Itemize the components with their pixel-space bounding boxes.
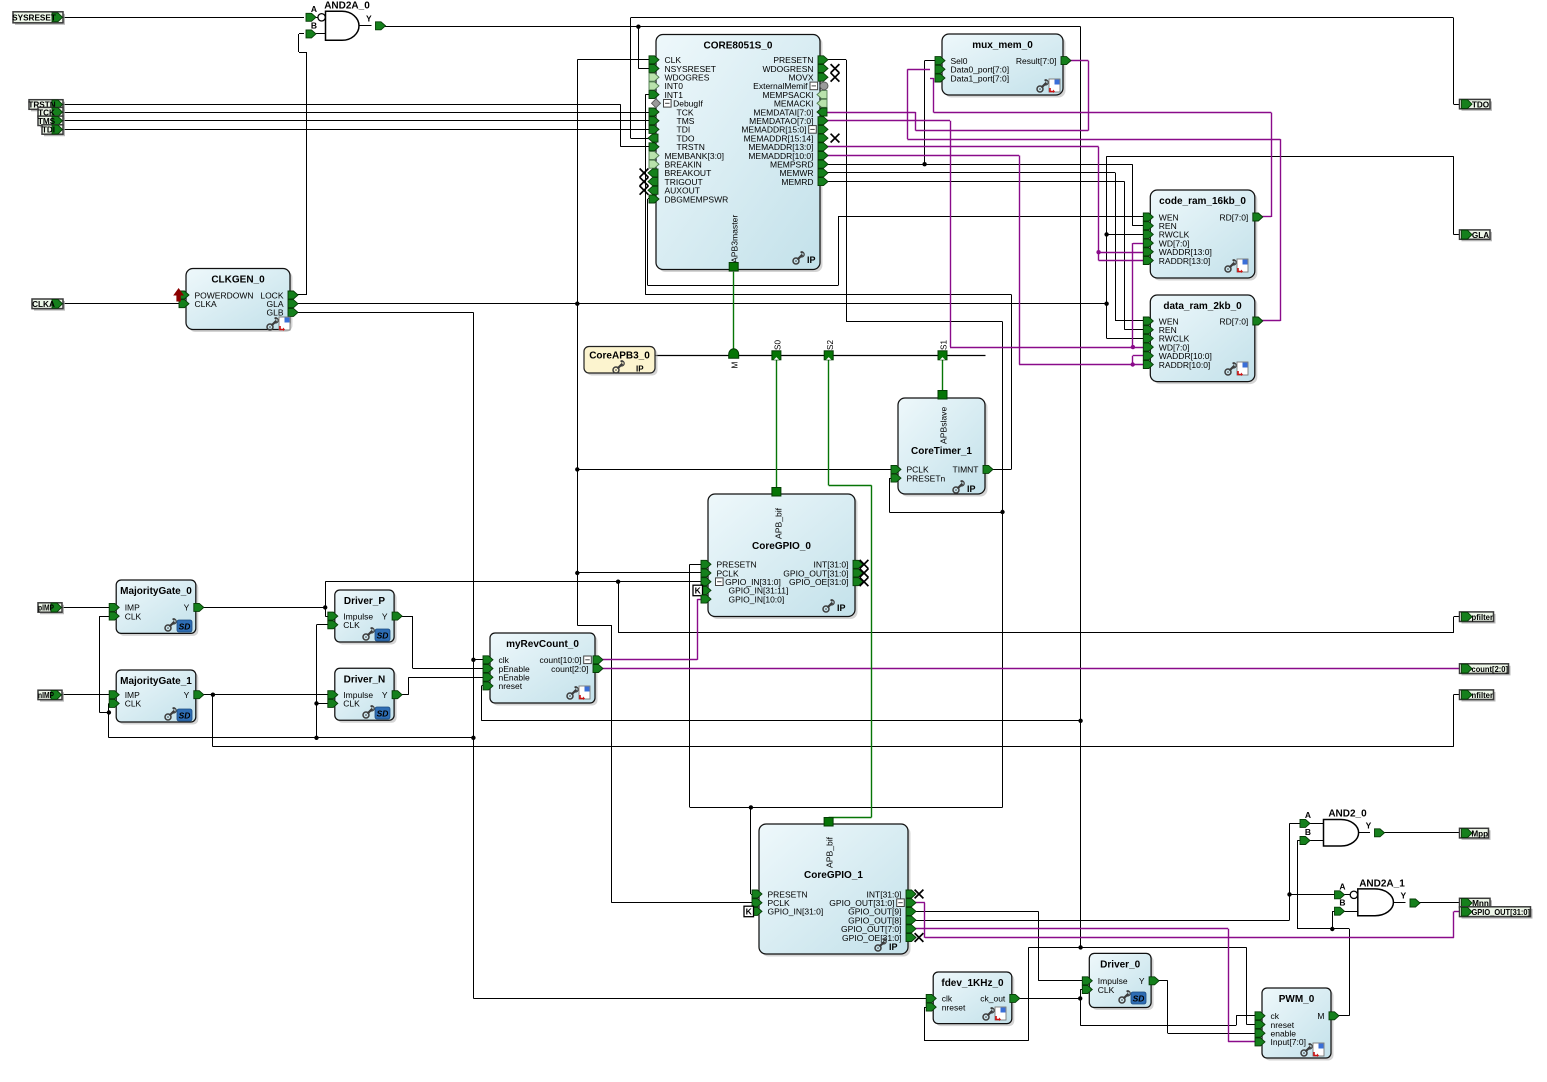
svg-text:nIMP: nIMP — [38, 691, 54, 700]
svg-text:SYSRESET: SYSRESET — [12, 14, 56, 23]
svg-text:SD: SD — [1133, 994, 1145, 1004]
svg-text:CoreAPB3_0: CoreAPB3_0 — [589, 351, 650, 362]
svg-text:IP: IP — [807, 255, 816, 265]
svg-text:Driver_N: Driver_N — [344, 674, 386, 685]
svg-text:GPIO_IN[31:0]: GPIO_IN[31:0] — [768, 907, 824, 917]
svg-text:A: A — [1305, 810, 1311, 820]
svg-text:Mpp: Mpp — [1471, 829, 1488, 838]
svg-text:IP: IP — [636, 365, 644, 374]
svg-text:S2: S2 — [826, 340, 835, 350]
svg-text:CoreTimer_1: CoreTimer_1 — [911, 446, 972, 457]
svg-text:GLA: GLA — [1472, 231, 1489, 240]
svg-text:CLK: CLK — [343, 620, 360, 630]
svg-text:nfilter: nfilter — [1472, 691, 1494, 700]
svg-text:SD: SD — [377, 631, 389, 641]
svg-text:code_ram_16kb_0: code_ram_16kb_0 — [1159, 196, 1246, 207]
svg-text:RADDR[13:0]: RADDR[13:0] — [1159, 256, 1211, 266]
svg-text:TDO: TDO — [1472, 100, 1490, 109]
svg-text:GPIO_IN[10:0]: GPIO_IN[10:0] — [729, 594, 785, 604]
svg-text:Y: Y — [1366, 820, 1372, 830]
svg-text:S0: S0 — [774, 340, 783, 350]
svg-text:pfilter: pfilter — [1472, 613, 1494, 622]
svg-text:myRevCount_0: myRevCount_0 — [506, 639, 579, 650]
svg-text:RD[7:0]: RD[7:0] — [1219, 212, 1248, 222]
svg-text:nreset: nreset — [499, 681, 523, 691]
svg-text:Driver_0: Driver_0 — [1100, 959, 1140, 970]
svg-text:CoreGPIO_0: CoreGPIO_0 — [752, 541, 811, 552]
svg-text:AND2_0: AND2_0 — [1328, 809, 1367, 820]
svg-text:TIMNT: TIMNT — [953, 465, 979, 475]
svg-text:CLKGEN_0: CLKGEN_0 — [211, 275, 265, 286]
svg-text:IP: IP — [837, 603, 846, 613]
svg-text:CLK: CLK — [343, 699, 360, 709]
svg-text:Y: Y — [184, 690, 190, 700]
svg-text:PWM_0: PWM_0 — [1279, 994, 1315, 1005]
svg-text:IP: IP — [889, 942, 898, 952]
svg-text:CLKA: CLKA — [195, 299, 218, 309]
svg-text:APB3master: APB3master — [730, 215, 740, 263]
svg-text:B: B — [1339, 898, 1345, 908]
svg-text:Y: Y — [366, 13, 372, 23]
svg-text:Data1_port[7:0]: Data1_port[7:0] — [951, 73, 1010, 83]
svg-text:CLK: CLK — [125, 699, 142, 709]
svg-text:GLB: GLB — [266, 308, 283, 318]
svg-text:CoreGPIO_1: CoreGPIO_1 — [804, 870, 863, 881]
svg-text:AND2A_1: AND2A_1 — [1359, 878, 1405, 889]
svg-text:GPIO_OE[31:0]: GPIO_OE[31:0] — [789, 577, 849, 587]
svg-text:DBGMEMPSWR: DBGMEMPSWR — [665, 194, 729, 204]
svg-text:CLKA: CLKA — [32, 300, 55, 309]
svg-text:GPIO_OUT[31:0]: GPIO_OUT[31:0] — [1472, 908, 1531, 917]
svg-text:count[2:0]: count[2:0] — [1472, 665, 1509, 674]
svg-text:SD: SD — [377, 709, 389, 719]
svg-text:S1: S1 — [940, 340, 949, 350]
svg-text:Result[7:0]: Result[7:0] — [1016, 56, 1057, 66]
svg-text:pIMP: pIMP — [38, 604, 54, 613]
svg-text:fdev_1KHz_0: fdev_1KHz_0 — [941, 978, 1004, 989]
svg-text:data_ram_2kb_0: data_ram_2kb_0 — [1163, 301, 1242, 312]
svg-text:M: M — [1317, 1011, 1324, 1021]
svg-text:B: B — [311, 20, 317, 30]
svg-text:K: K — [695, 586, 702, 596]
svg-text:IP: IP — [967, 484, 976, 494]
svg-text:AND2A_0: AND2A_0 — [324, 1, 370, 12]
svg-text:APB_bif: APB_bif — [825, 836, 835, 868]
svg-text:A: A — [311, 4, 317, 14]
svg-text:ck_out: ck_out — [980, 994, 1006, 1004]
svg-text:CLK: CLK — [125, 611, 142, 621]
svg-text:MEMRD: MEMRD — [781, 177, 813, 187]
svg-text:APBslave: APBslave — [939, 407, 949, 444]
svg-text:RADDR[10:0]: RADDR[10:0] — [1159, 360, 1211, 370]
svg-text:M: M — [731, 362, 740, 369]
svg-text:CLK: CLK — [1098, 985, 1115, 995]
svg-text:MajorityGate_1: MajorityGate_1 — [120, 676, 192, 687]
svg-text:Y: Y — [184, 603, 190, 613]
svg-text:A: A — [1339, 881, 1345, 891]
svg-text:Input[7:0]: Input[7:0] — [1271, 1037, 1306, 1047]
svg-text:B: B — [1305, 827, 1311, 837]
svg-text:PRESETn: PRESETn — [907, 473, 946, 483]
svg-text:Y: Y — [382, 690, 388, 700]
svg-text:SD: SD — [179, 711, 191, 721]
svg-text:APB_bif: APB_bif — [774, 507, 784, 539]
svg-text:SD: SD — [179, 622, 191, 632]
svg-text:count[2:0]: count[2:0] — [551, 664, 588, 674]
svg-text:RD[7:0]: RD[7:0] — [1219, 316, 1248, 326]
svg-text:TDI: TDI — [42, 126, 55, 135]
svg-text:Driver_P: Driver_P — [344, 596, 385, 607]
svg-text:MajorityGate_0: MajorityGate_0 — [120, 586, 192, 597]
svg-text:nreset: nreset — [942, 1002, 966, 1012]
svg-text:Y: Y — [1139, 976, 1145, 986]
svg-text:K: K — [746, 907, 753, 917]
svg-text:mux_mem_0: mux_mem_0 — [972, 40, 1033, 51]
svg-text:Y: Y — [1401, 891, 1407, 901]
svg-text:CORE8051S_0: CORE8051S_0 — [704, 41, 773, 52]
svg-text:Y: Y — [382, 611, 388, 621]
